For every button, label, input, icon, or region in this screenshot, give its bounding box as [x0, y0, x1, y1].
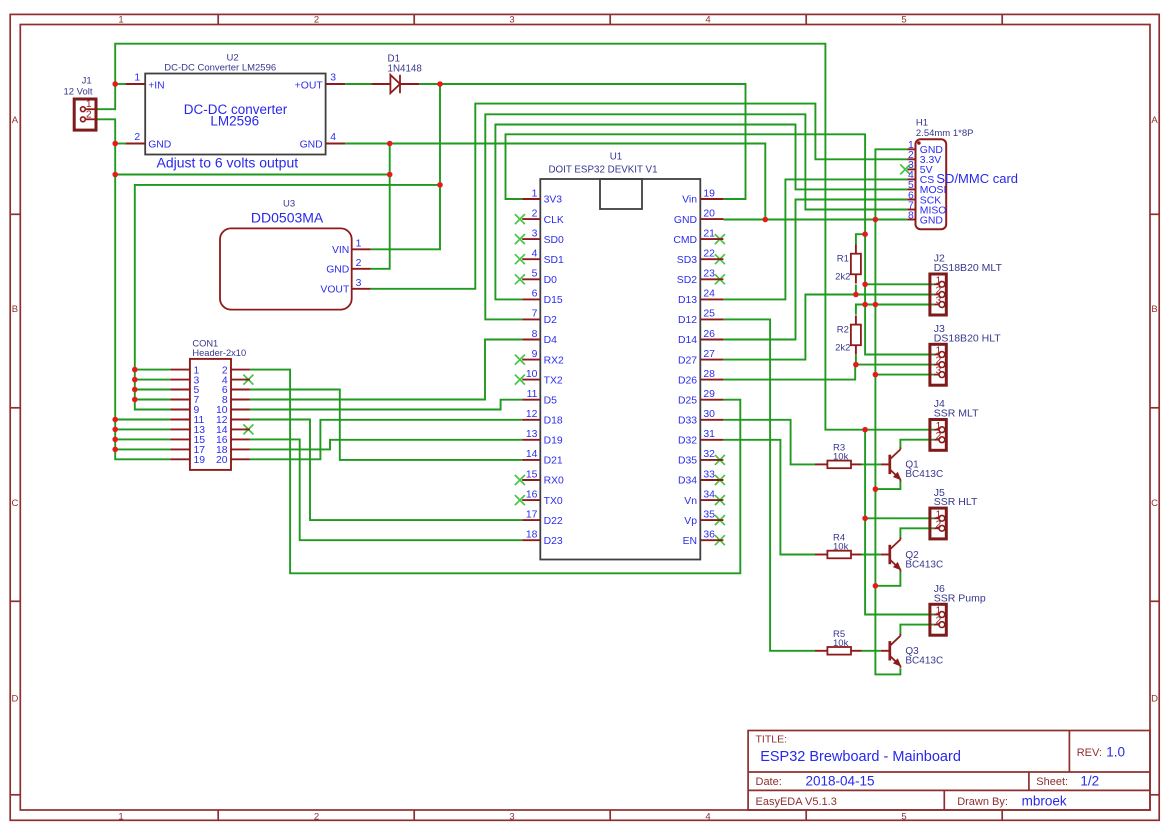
wire D19 net: U1 pin13 jog to CON1.18 — [250, 440, 522, 450]
wire D2 net: U1 pin7 up and over to H1.7 MISO — [485, 114, 907, 319]
svg-text:10k: 10k — [833, 542, 849, 553]
svg-text:1: 1 — [356, 238, 362, 249]
svg-text:13: 13 — [526, 429, 538, 440]
frame tick top 2 — [413, 14, 415, 24]
junction dot 21 — [873, 302, 879, 308]
junction dot 24 — [873, 372, 879, 378]
wire +6V: node to U3 VIN — [371, 84, 440, 249]
wire D26 net: U1 pin28 up to J3.2 row — [723, 365, 934, 380]
svg-text:3: 3 — [509, 812, 514, 823]
wire D4 net: U1 pin8 down to CON1.8 — [250, 340, 522, 400]
svg-text:D32: D32 — [678, 436, 697, 447]
svg-text:3: 3 — [936, 296, 942, 307]
svg-text:RX2: RX2 — [544, 355, 564, 366]
svg-text:1N4148: 1N4148 — [388, 64, 423, 75]
svg-text:Vin: Vin — [682, 195, 697, 206]
svg-text:2: 2 — [356, 258, 362, 269]
svg-text:CMD: CMD — [673, 235, 697, 246]
svg-text:Vn: Vn — [684, 496, 697, 507]
no-connect X U1 pin 22 — [715, 254, 725, 264]
svg-text:21: 21 — [703, 228, 715, 239]
svg-text:5: 5 — [532, 269, 538, 280]
op-amp-box U2 DC-DC converter LM2596 — [126, 74, 346, 155]
svg-text:SD/MMC card: SD/MMC card — [936, 171, 1018, 186]
no-connect X U1 pin 2 — [515, 214, 525, 224]
wire GND: J1.2 down left rail to CON1.19 — [96, 119, 170, 459]
svg-text:35: 35 — [703, 509, 715, 520]
wire +6V branch to CON1 odd pins — [135, 185, 440, 410]
wire +6V to CON1.7 — [135, 399, 170, 401]
frame tick top 1 — [217, 14, 219, 24]
svg-text:1: 1 — [118, 15, 123, 26]
junction dot 6 — [437, 81, 443, 87]
svg-text:D14: D14 — [678, 335, 697, 346]
svg-text:16: 16 — [526, 489, 538, 500]
svg-text:D25: D25 — [678, 395, 697, 406]
svg-text:+IN: +IN — [148, 80, 164, 91]
junction dot 11 — [132, 397, 138, 403]
frame tick left 4 — [10, 794, 20, 796]
svg-text:R2: R2 — [837, 325, 849, 336]
junction dot 12 — [112, 417, 118, 423]
no-connect X U1 pin 15 — [515, 475, 525, 485]
svg-text:24: 24 — [703, 289, 715, 300]
wire D23 net: CON1.16 down to U1 pin18 — [250, 439, 522, 540]
junction dot 13 — [112, 427, 118, 433]
wire Q1 emitter to GND rail — [875, 481, 900, 489]
frame tick right 2 — [1150, 407, 1159, 409]
wire R5 to Q3 base — [862, 650, 881, 652]
wire +12V into U2 +IN — [115, 83, 125, 85]
svg-text:D5: D5 — [544, 395, 558, 406]
no-connect X CON1 pin 14 — [243, 424, 253, 434]
resistor R3 10k (horizontal) — [815, 461, 862, 469]
wire +6V to CON1.5 — [135, 389, 170, 391]
svg-text:D21: D21 — [544, 456, 563, 467]
svg-text:2: 2 — [936, 519, 942, 530]
svg-text:SSR MLT: SSR MLT — [934, 408, 979, 420]
resistor R1 2k2 (vertical) — [851, 245, 861, 284]
svg-text:5: 5 — [901, 812, 906, 823]
wire D12 net: U1 pin25 down to R5 — [723, 319, 815, 650]
frame tick top 4 — [805, 14, 807, 24]
wire R3 to Q1 base — [862, 463, 881, 465]
svg-text:9: 9 — [532, 349, 538, 360]
svg-text:4: 4 — [532, 249, 538, 260]
svg-text:10k: 10k — [833, 452, 849, 463]
svg-text:32: 32 — [703, 449, 715, 460]
wire +6V to CON1.3 — [135, 379, 170, 381]
junction dot 10 — [132, 387, 138, 393]
junction dot 17 — [873, 217, 879, 223]
svg-text:A: A — [1151, 115, 1158, 126]
no-connect X U1 pin 34 — [715, 495, 725, 505]
junction dot 16 — [763, 217, 769, 223]
svg-text:J1: J1 — [82, 76, 92, 87]
wire D15 net: U1 pin6 up and over to H1.5 MOSI — [495, 125, 907, 300]
svg-text:33: 33 — [703, 469, 715, 480]
frame tick right 3 — [1150, 600, 1159, 602]
svg-text:1: 1 — [134, 72, 140, 83]
wire R4 to Q2 base — [862, 554, 881, 556]
svg-text:C: C — [1151, 498, 1158, 509]
frame tick bottom 1 — [217, 810, 219, 820]
svg-text:14: 14 — [526, 449, 538, 460]
svg-text:D: D — [1151, 694, 1158, 705]
wire GND branch to J3.3 — [875, 374, 934, 376]
svg-text:SD1: SD1 — [544, 255, 564, 266]
svg-text:B: B — [1151, 304, 1157, 315]
wire D14 net: U1 pin26 up to H1.6 SCK — [723, 200, 907, 340]
svg-text:26: 26 — [703, 329, 715, 340]
svg-text:DD0503MA: DD0503MA — [251, 210, 324, 226]
frame tick bottom 3 — [609, 810, 611, 820]
svg-text:C: C — [11, 498, 18, 509]
svg-text:GND: GND — [148, 139, 171, 150]
svg-text:RX0: RX0 — [544, 476, 564, 487]
frame tick right 4 — [1150, 794, 1159, 796]
mcu U1 DOIT ESP32 DEVKIT V1 body — [522, 179, 723, 560]
wire R2 bottom to J3.2 row — [855, 355, 857, 365]
junction dot 26 — [862, 516, 868, 522]
wire diode D1 to Vin U1 pin19 — [419, 84, 745, 199]
wire J2.3 row with R2 top — [856, 305, 934, 315]
svg-text:D19: D19 — [544, 436, 563, 447]
connector CON1 Header-2x10 — [170, 359, 250, 470]
svg-text:GND: GND — [920, 215, 943, 226]
svg-text:2: 2 — [314, 812, 319, 823]
junction dot 25 — [862, 427, 868, 433]
svg-text:+OUT: +OUT — [295, 80, 324, 91]
svg-text:TX0: TX0 — [544, 496, 563, 507]
transistor Q1 BC413C (NPN) — [881, 447, 901, 481]
svg-text:D18: D18 — [544, 416, 563, 427]
wire D13 net: U1 pin24 up to H1.4 CS — [723, 179, 907, 299]
svg-text:GND: GND — [300, 139, 323, 150]
connector J2 DS18B20 MLT — [930, 274, 946, 315]
svg-text:1.0: 1.0 — [1106, 745, 1125, 760]
svg-text:11: 11 — [527, 389, 538, 400]
svg-text:4: 4 — [705, 812, 710, 823]
svg-text:1: 1 — [532, 188, 538, 199]
no-connect X U1 pin 23 — [715, 274, 725, 284]
resistor R4 10k (horizontal) — [815, 551, 862, 559]
svg-text:DS18B20 MLT: DS18B20 MLT — [934, 262, 1003, 274]
wire D18 net: U1 pin12 to CON1.20 — [250, 420, 522, 460]
svg-text:Header-2x10: Header-2x10 — [192, 348, 246, 358]
wire GND row to U3 GND — [115, 174, 390, 176]
svg-text:EN: EN — [683, 536, 697, 547]
wire branch +12V to J5.1 — [865, 517, 934, 519]
svg-text:2: 2 — [936, 431, 942, 442]
frame tick left 3 — [10, 600, 20, 602]
no-connect X U1 pin 3 — [515, 234, 525, 244]
connector H1 2.54mm 1*8P — [907, 139, 946, 229]
wire +12V: J1.1 up, along top, down right rail to J4.1 — [96, 44, 934, 430]
svg-text:Date:: Date: — [756, 776, 782, 788]
connector J5 SSR HLT — [930, 508, 946, 539]
svg-text:R1: R1 — [837, 254, 849, 265]
svg-text:Sheet:: Sheet: — [1036, 776, 1068, 788]
connector J6 SSR Pump — [930, 604, 946, 635]
wire D27 net: U1 pin27 up to J2.2 row — [723, 295, 934, 360]
junction dot 15 — [112, 447, 118, 453]
svg-text:36: 36 — [703, 530, 715, 541]
svg-text:EasyEDA V5.1.3: EasyEDA V5.1.3 — [756, 796, 837, 808]
svg-text:5: 5 — [901, 15, 906, 26]
svg-text:D: D — [11, 694, 18, 705]
svg-text:D13: D13 — [678, 295, 697, 306]
svg-text:D23: D23 — [544, 536, 563, 547]
svg-text:19: 19 — [703, 188, 715, 199]
svg-text:27: 27 — [703, 349, 715, 360]
no-connect X U1 pin 32 — [715, 455, 725, 465]
svg-text:GND: GND — [674, 215, 697, 226]
resistor R5 10k (horizontal) — [815, 647, 862, 655]
svg-text:2k2: 2k2 — [835, 342, 850, 353]
junction dot 28 — [873, 583, 879, 589]
svg-text:15: 15 — [526, 469, 538, 480]
svg-text:D27: D27 — [678, 355, 697, 366]
svg-text:TITLE:: TITLE: — [756, 734, 788, 746]
junction dot 14 — [112, 437, 118, 443]
svg-text:12: 12 — [526, 409, 538, 420]
svg-text:17: 17 — [526, 509, 538, 520]
svg-text:SSR HLT: SSR HLT — [934, 496, 978, 508]
svg-text:SD3: SD3 — [677, 255, 697, 266]
svg-text:4: 4 — [330, 132, 336, 143]
svg-text:ESP32 Brewboard - Mainboard: ESP32 Brewboard - Mainboard — [760, 749, 961, 765]
connector J1 12 Volt — [74, 99, 96, 130]
svg-text:18: 18 — [526, 530, 538, 541]
junction dot 3 — [112, 172, 118, 178]
svg-text:20: 20 — [216, 455, 228, 466]
svg-text:1/2: 1/2 — [1080, 774, 1099, 789]
frame tick right 1 — [1150, 213, 1159, 215]
svg-text:SSR Pump: SSR Pump — [934, 592, 986, 604]
wire GND20 row U1 pin20 to H1.8 — [723, 219, 907, 221]
no-connect X U1 pin 5 — [515, 274, 525, 284]
frame tick bottom 4 — [805, 810, 807, 820]
frame tick top 5 — [1001, 14, 1003, 24]
svg-text:3: 3 — [532, 228, 538, 239]
svg-text:D15: D15 — [544, 295, 563, 306]
no-connect X U1 pin 4 — [515, 254, 525, 264]
wire D33 net: U1 pin30 down to R3 — [723, 420, 815, 465]
svg-text:2k2: 2k2 — [835, 272, 850, 283]
svg-text:Vp: Vp — [684, 516, 697, 527]
wire U2 +OUT to diode D1 — [345, 83, 371, 85]
svg-text:Adjust to 6 volts output: Adjust to 6 volts output — [157, 155, 299, 171]
svg-text:D4: D4 — [544, 335, 558, 346]
wire GND to CON1.13 — [115, 428, 170, 430]
wire D21 net: CON1.6 down to U1 pin14 — [250, 390, 522, 460]
svg-text:8: 8 — [908, 210, 914, 221]
svg-text:U3: U3 — [283, 199, 295, 210]
resistor R2 2k2 (vertical) — [851, 315, 861, 354]
svg-text:D2: D2 — [544, 315, 558, 326]
svg-text:7: 7 — [532, 309, 538, 320]
svg-text:22: 22 — [703, 249, 715, 260]
no-connect X H1 pin 3 — [900, 164, 910, 174]
no-connect X U1 pin 35 — [715, 515, 725, 525]
svg-text:2: 2 — [86, 109, 92, 120]
no-connect X CON1 pin 4 — [243, 375, 253, 385]
svg-text:VIN: VIN — [332, 245, 349, 256]
svg-text:12 Volt: 12 Volt — [63, 87, 92, 98]
svg-text:D35: D35 — [678, 456, 697, 467]
svg-text:3: 3 — [509, 15, 514, 26]
svg-text:BC413C: BC413C — [905, 469, 943, 480]
wire 3V3: U1 pin1 up, across, down right 3V3 rail to J3.1 — [506, 134, 934, 354]
connector J4 SSR MLT — [930, 420, 946, 451]
svg-text:8: 8 — [532, 329, 538, 340]
wire D32 net: U1 pin31 down to R4 — [723, 440, 815, 555]
svg-text:2: 2 — [134, 132, 140, 143]
svg-text:34: 34 — [703, 489, 715, 500]
transistor Q3 BC413C (NPN) — [881, 634, 901, 668]
svg-text:3: 3 — [356, 278, 362, 289]
wire Q2 emitter to GND rail — [875, 571, 900, 586]
wire +12V lower rail to J5.1 and J6.1 — [865, 430, 934, 615]
regulator U3 DD0503MA — [220, 228, 371, 309]
svg-text:D34: D34 — [678, 476, 697, 487]
frame tick top 3 — [609, 14, 611, 24]
svg-text:2: 2 — [936, 616, 942, 627]
no-connect X U1 pin 33 — [715, 475, 725, 485]
svg-text:mbroek: mbroek — [1022, 793, 1067, 808]
no-connect X U1 pin 10 — [515, 375, 525, 385]
svg-text:DS18B20 HLT: DS18B20 HLT — [934, 332, 1002, 344]
junction dot 27 — [873, 486, 879, 492]
svg-text:6: 6 — [532, 289, 538, 300]
svg-text:SD2: SD2 — [677, 275, 697, 286]
junction dot 18 — [862, 231, 868, 237]
svg-text:BC413C: BC413C — [905, 559, 943, 570]
svg-text:2: 2 — [314, 15, 319, 26]
svg-text:31: 31 — [703, 429, 715, 440]
wire Q1 collector to J4.2 — [900, 440, 934, 449]
wire 3.3V: U3 VOUT up and over to H1.2 — [371, 104, 908, 289]
svg-text:A: A — [12, 115, 19, 126]
junction dot 5 — [387, 172, 393, 178]
svg-text:3V3: 3V3 — [544, 195, 563, 206]
svg-text:CON1: CON1 — [192, 339, 218, 349]
frame tick bottom 5 — [1001, 810, 1003, 820]
wire GND to CON1.17 — [115, 448, 170, 450]
svg-text:23: 23 — [703, 269, 715, 280]
wire D22 net: CON1.12 down to U1 pin17 — [250, 420, 522, 521]
junction dot 1 — [112, 81, 118, 87]
svg-text:30: 30 — [703, 409, 715, 420]
no-connect X U1 pin 16 — [515, 495, 525, 505]
connector J3 DS18B20 HLT — [930, 344, 946, 385]
junction dot 8 — [132, 367, 138, 373]
svg-text:4: 4 — [705, 15, 710, 26]
svg-text:29: 29 — [703, 389, 715, 400]
svg-text:1: 1 — [118, 812, 123, 823]
junction dot 2 — [112, 141, 118, 147]
transistor Q2 BC413C (NPN) — [881, 538, 901, 572]
wire R1 bottom to J2.2 row — [855, 285, 857, 295]
svg-text:D33: D33 — [678, 416, 697, 427]
wire +6V to CON1.1 — [135, 369, 170, 371]
no-connect X U1 pin 36 — [715, 535, 725, 545]
wire GND to CON1.11 — [115, 419, 170, 421]
svg-text:LM2596: LM2596 — [210, 114, 259, 129]
junction dot 23 — [853, 362, 859, 368]
svg-text:SD0: SD0 — [544, 235, 564, 246]
wire Q3 collector to J6.2 — [900, 625, 934, 636]
svg-text:CLK: CLK — [544, 215, 564, 226]
svg-text:GND: GND — [326, 264, 349, 275]
svg-text:3: 3 — [330, 72, 336, 83]
svg-text:DC-DC Converter LM2596: DC-DC Converter LM2596 — [164, 62, 276, 73]
svg-text:U1: U1 — [610, 152, 623, 163]
svg-text:BC413C: BC413C — [905, 656, 943, 667]
wire 3V3 branch to J2.1 — [865, 283, 934, 285]
svg-text:VOUT: VOUT — [320, 284, 350, 295]
frame tick left 1 — [10, 213, 20, 215]
svg-text:10: 10 — [526, 369, 538, 380]
frame tick left 2 — [10, 407, 20, 409]
wire 3V3 branch to R1 top — [856, 234, 865, 244]
svg-text:REV:: REV: — [1077, 747, 1102, 759]
junction dot 7 — [437, 182, 443, 188]
svg-text:D12: D12 — [678, 315, 697, 326]
junction dot 9 — [132, 377, 138, 383]
junction dot 19 — [862, 282, 868, 288]
title block — [748, 731, 1150, 811]
svg-text:20: 20 — [703, 208, 715, 219]
svg-text:19: 19 — [194, 455, 206, 466]
svg-text:D22: D22 — [544, 516, 563, 527]
svg-text:D0: D0 — [544, 275, 558, 286]
wire GND into U2 pin2 — [115, 143, 125, 145]
wire GND to CON1.15 — [115, 438, 170, 440]
svg-text:25: 25 — [703, 309, 715, 320]
svg-text:28: 28 — [703, 369, 715, 380]
svg-text:Drawn By:: Drawn By: — [957, 796, 1008, 808]
svg-text:2.54mm 1*8P: 2.54mm 1*8P — [916, 128, 974, 139]
svg-text:2: 2 — [532, 208, 538, 219]
wire Q2 collector to J5.2 — [900, 528, 934, 539]
svg-text:B: B — [12, 304, 18, 315]
wire GND rail H1.1 down to Q3 emitter — [875, 149, 907, 674]
junction dot 20 — [862, 302, 868, 308]
junction dot 22 — [853, 292, 859, 298]
junction dot 4 — [387, 141, 393, 147]
wire D5 net: U1 pin11 jog to CON1.10 — [250, 400, 522, 410]
wire D25 net: CON1.2 down, bottom bus, up to U1 pin29 — [250, 370, 740, 574]
wire GND vertical to U3 GND pin — [371, 144, 390, 269]
no-connect X U1 pin 9 — [515, 355, 525, 365]
svg-text:10k: 10k — [833, 638, 849, 649]
no-connect X U1 pin 21 — [715, 234, 725, 244]
svg-text:3: 3 — [936, 366, 942, 377]
svg-text:TX2: TX2 — [544, 375, 563, 386]
svg-text:DOIT ESP32 DEVKIT V1: DOIT ESP32 DEVKIT V1 — [548, 165, 657, 176]
wire U2 GND pin4 to U1 GND20 net — [345, 144, 765, 220]
svg-text:2018-04-15: 2018-04-15 — [806, 774, 875, 789]
svg-text:D26: D26 — [678, 375, 697, 386]
frame tick bottom 2 — [413, 810, 415, 820]
diode D1 1N4148 — [371, 75, 419, 93]
